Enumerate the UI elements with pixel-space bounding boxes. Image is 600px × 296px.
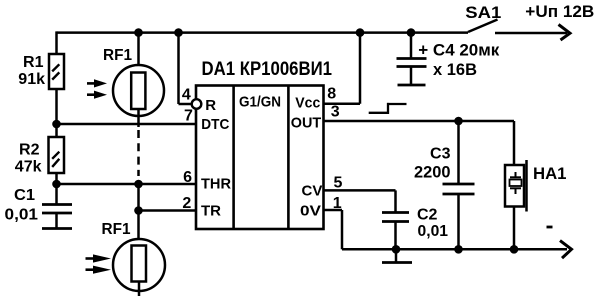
- wire pin 5 CV to C2: [324, 189, 396, 192]
- svg-text:4: 4: [182, 86, 191, 103]
- svg-text:RF1: RF1: [103, 47, 132, 64]
- svg-text:CV: CV: [302, 183, 323, 200]
- photoresistor RF1 bottom: [102, 221, 166, 296]
- svg-text:47k: 47k: [15, 159, 42, 176]
- wire DTC pin7: [57, 123, 197, 126]
- node junction THR-RF1 link: [134, 180, 143, 189]
- svg-text:8: 8: [327, 86, 336, 103]
- capacitor C2 0,01: [382, 190, 448, 249]
- wire pin 4 branch: [177, 31, 180, 104]
- svg-text:C2: C2: [417, 207, 438, 224]
- wire supply arrow +Up 12V: [495, 2, 594, 40]
- svg-text:HA1: HA1: [533, 164, 567, 183]
- svg-text:DTC: DTC: [201, 116, 229, 133]
- node junction C3 on bottom rail: [454, 245, 463, 254]
- svg-text:0,01: 0,01: [5, 207, 39, 224]
- node junction TR-RF1 link: [134, 206, 143, 215]
- svg-text:2: 2: [182, 195, 191, 212]
- svg-text:3: 3: [331, 104, 340, 121]
- svg-text:R1: R1: [23, 54, 44, 71]
- resistor R2 47k: [15, 137, 64, 176]
- wire pin 8 to rail: [324, 102, 361, 105]
- wire R1 top: [55, 31, 58, 55]
- svg-text:+ C4 20мк: + C4 20мк: [418, 41, 499, 60]
- node junction pin4 branch rail: [174, 28, 183, 37]
- svg-text:TR: TR: [201, 203, 221, 220]
- svg-text:2200: 2200: [414, 162, 451, 181]
- svg-text:5: 5: [334, 174, 343, 191]
- svg-text:x 16В: x 16В: [433, 60, 477, 79]
- light arrow 2 RF1 top: [87, 91, 107, 99]
- switch SA1: [465, 3, 501, 32]
- photoresistor RF1 top: [103, 33, 164, 127]
- resistor R1 91k: [18, 54, 64, 89]
- svg-text:R2: R2: [19, 142, 40, 159]
- ground bar under C1: [42, 227, 72, 230]
- svg-text:+Uп 12В: +Uп 12В: [525, 2, 594, 21]
- wire top supply rail: [57, 31, 469, 34]
- waveform pulse symbol: [369, 103, 407, 114]
- wire dashed mechanical link RF1: [137, 130, 140, 176]
- svg-text:91k: 91k: [18, 71, 45, 88]
- sounder HA1 piezo: [505, 160, 567, 212]
- wire bottom common rail: [342, 248, 567, 251]
- svg-text:0,01: 0,01: [418, 223, 449, 240]
- wire OUT down to HA1: [513, 121, 516, 166]
- node junction C4 rail: [407, 28, 416, 37]
- wire TR pin2: [139, 209, 197, 212]
- svg-text:SA1: SA1: [465, 3, 501, 22]
- wire pin 1 0V down: [324, 209, 343, 212]
- svg-text:7: 7: [184, 107, 193, 124]
- light arrow 1 RF1 bottom: [86, 254, 112, 262]
- light arrow 2 RF1 bottom: [86, 266, 112, 274]
- node junction RF1 top rail: [134, 28, 143, 37]
- node junction C3 on OUT: [454, 117, 463, 126]
- op-amp U1 timer DA1 KR1006VI1 body: [196, 58, 332, 229]
- inversion bubble pin R: [192, 99, 202, 109]
- svg-text:DA1 КР1006ВИ1: DA1 КР1006ВИ1: [202, 58, 333, 80]
- svg-text:RF1: RF1: [102, 221, 131, 238]
- node junction pin8 branch rail: [356, 28, 365, 37]
- svg-text:0V: 0V: [300, 203, 321, 220]
- capacitor C1 0,01: [5, 187, 73, 228]
- svg-text:OUT: OUT: [291, 114, 321, 131]
- ground symbol under C2: [382, 249, 412, 262]
- light arrow 1 RF1 top: [87, 79, 107, 87]
- capacitor C4 20mk polarized: [397, 33, 500, 85]
- svg-text:G1/GN: G1/GN: [239, 94, 281, 111]
- node junction HA1 on bottom rail: [510, 245, 519, 254]
- wire THR pin6: [57, 183, 197, 186]
- node junction R2-C1-THR: [52, 180, 61, 189]
- svg-text:THR: THR: [201, 176, 231, 193]
- svg-text:C3: C3: [430, 146, 451, 163]
- node junction R1-R2-DTC: [52, 120, 61, 129]
- wire R1 bottom to R2: [55, 89, 58, 137]
- node junction C2-ground on bottom rail: [392, 245, 401, 254]
- capacitor C3 2200: [414, 121, 475, 249]
- wire R2 bottom to C1: [55, 173, 58, 205]
- svg-text:C1: C1: [14, 187, 35, 204]
- wire pin 3 OUT rail: [324, 120, 515, 123]
- svg-text:6: 6: [183, 169, 192, 186]
- wire HA1 bottom: [513, 207, 516, 250]
- svg-text:Vcc: Vcc: [295, 95, 320, 112]
- wire bottom rail arrow minus: [547, 227, 572, 258]
- wire THR junction down to RF1 bottom: [137, 181, 140, 240]
- ground bar under C4: [398, 84, 426, 87]
- svg-text:R: R: [205, 97, 216, 114]
